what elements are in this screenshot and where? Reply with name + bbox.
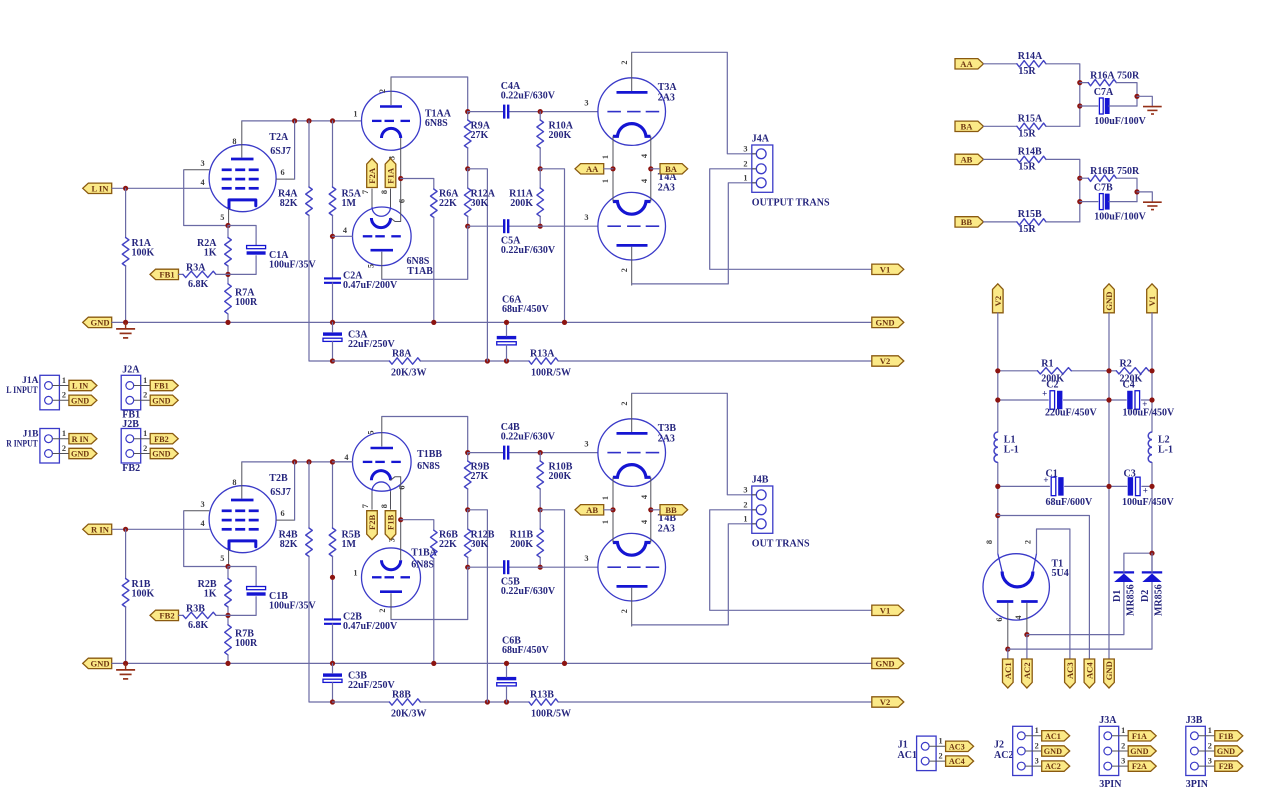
svg-text:V1: V1	[1147, 296, 1157, 307]
connector J1A	[40, 375, 69, 410]
svg-text:1: 1	[601, 179, 610, 183]
junction	[465, 565, 470, 570]
svg-text:3: 3	[1035, 756, 1039, 765]
svg-text:1: 1	[143, 376, 147, 385]
svg-text:1: 1	[1121, 726, 1125, 735]
wire input	[112, 187, 209, 189]
wire aa	[604, 509, 613, 511]
net label FB1 (J2A pin1)	[150, 380, 178, 390]
svg-text:C7B: C7B	[1094, 182, 1113, 193]
svg-text:FB1: FB1	[159, 270, 174, 280]
wire c4 rail b	[509, 111, 598, 113]
svg-text:2: 2	[620, 609, 629, 613]
wire r15 out	[1046, 125, 1080, 127]
resistor R1	[1038, 358, 1072, 384]
svg-text:20K/3W: 20K/3W	[391, 709, 427, 720]
junction	[225, 661, 230, 666]
junction	[465, 224, 470, 229]
wire ac1	[1007, 649, 1009, 659]
wire r12 wires	[467, 510, 469, 529]
net label F1B	[385, 511, 396, 540]
capacitor C6A	[497, 295, 550, 345]
svg-text:8: 8	[232, 137, 236, 146]
junction	[995, 397, 1000, 402]
wire r7 gnd	[227, 655, 229, 663]
svg-text:J1: J1	[898, 739, 908, 750]
net label AC1 (J2 pin1)	[1042, 731, 1070, 741]
wire t3 plate	[632, 393, 757, 495]
svg-text:J4B: J4B	[752, 475, 769, 486]
wire r4 to v2	[309, 216, 333, 362]
wire d1 top	[1124, 553, 1152, 572]
svg-text:15R: 15R	[1018, 128, 1036, 139]
tube T1 5U4	[983, 540, 1069, 649]
wire c2 gnd	[332, 624, 334, 664]
net label L IN	[83, 183, 112, 193]
svg-text:220uF/450V: 220uF/450V	[1045, 408, 1097, 419]
wire fb	[179, 273, 184, 275]
junction	[485, 699, 490, 704]
svg-text:22K: 22K	[439, 198, 457, 209]
pin numbers T3/T4 legs	[601, 154, 649, 183]
junction	[538, 109, 543, 114]
wire c7 right	[1109, 105, 1137, 107]
wire t1bb plate	[382, 417, 468, 453]
svg-text:2: 2	[378, 89, 387, 93]
junction	[123, 186, 128, 191]
wire r16 out	[1116, 83, 1137, 106]
svg-text:J4A: J4A	[752, 134, 770, 145]
tube T1BA 6N8S (lower triode)	[353, 520, 437, 620]
junction	[610, 166, 615, 171]
wire in2	[984, 125, 1017, 127]
resistor R11A	[509, 188, 543, 216]
junction	[504, 358, 509, 363]
junction	[1077, 80, 1082, 85]
net label AA	[955, 59, 984, 69]
resistor R10B	[537, 461, 573, 489]
junction	[504, 661, 509, 666]
capacitor C7B	[1094, 182, 1147, 222]
pin numbers T3/T4 legs	[601, 495, 649, 524]
svg-text:2: 2	[143, 444, 147, 453]
wire r16 in	[1080, 177, 1088, 179]
svg-text:2: 2	[1208, 741, 1212, 750]
svg-text:6N8S: 6N8S	[411, 560, 434, 571]
wire t3 plate	[632, 52, 757, 154]
svg-text:F1A: F1A	[386, 167, 396, 184]
wire c7 left	[1080, 105, 1098, 107]
svg-text:GND: GND	[90, 659, 109, 669]
capacitor C6B	[497, 636, 550, 686]
svg-text:5: 5	[367, 430, 376, 434]
svg-text:3: 3	[584, 213, 588, 222]
svg-text:GND: GND	[1044, 747, 1062, 756]
net label R IN (J1B pin1)	[69, 434, 97, 444]
connector J2A	[121, 375, 150, 410]
svg-text:D1: D1	[1112, 590, 1123, 602]
wire R2 out	[227, 266, 229, 284]
svg-text:AC1: AC1	[898, 750, 917, 761]
svg-text:F2A: F2A	[1132, 762, 1147, 771]
junction	[648, 166, 653, 171]
resistor R4A	[278, 187, 312, 216]
wire c2 row	[998, 399, 1048, 401]
net label GND	[872, 658, 904, 668]
net label BB	[955, 217, 984, 227]
ground	[1143, 107, 1162, 114]
wire g3 to cathode	[184, 170, 228, 226]
wire R2 out	[227, 607, 229, 625]
svg-text:100R: 100R	[235, 297, 258, 308]
svg-text:GND: GND	[1104, 661, 1114, 680]
svg-text:MR856: MR856	[1126, 584, 1137, 616]
wire c5 rail b	[509, 225, 598, 227]
svg-text:1M: 1M	[342, 198, 357, 209]
svg-text:GND: GND	[1130, 747, 1148, 756]
svg-text:C7A: C7A	[1094, 87, 1114, 98]
wire cathode node	[228, 567, 256, 587]
svg-text:4: 4	[1014, 615, 1023, 619]
net label AC3 (J1 pin1)	[946, 741, 974, 751]
svg-text:3: 3	[1121, 756, 1125, 765]
junction	[562, 320, 567, 325]
connector J4A	[743, 134, 830, 209]
wire plate rail	[242, 461, 353, 463]
wire r7 gnd	[227, 314, 229, 322]
svg-text:R15A: R15A	[1018, 113, 1043, 124]
svg-text:1: 1	[143, 429, 147, 438]
resistor R14A	[1017, 51, 1046, 77]
wire c5 rail	[468, 225, 504, 227]
wire node to v2	[468, 169, 488, 361]
svg-text:J1B: J1B	[23, 429, 40, 439]
svg-text:R3B: R3B	[186, 603, 205, 614]
svg-text:100uF/100V: 100uF/100V	[1094, 116, 1146, 127]
svg-text:AC2: AC2	[1045, 762, 1061, 771]
svg-text:6N8S: 6N8S	[417, 461, 440, 472]
wire to R1	[125, 529, 127, 578]
svg-text:1: 1	[743, 173, 747, 182]
net label V2	[872, 697, 904, 707]
svg-text:3: 3	[1208, 756, 1212, 765]
junction	[292, 118, 297, 123]
connector J1 labels	[898, 739, 917, 761]
tube T2A 6SJ7	[184, 121, 295, 226]
svg-text:4: 4	[640, 154, 649, 158]
svg-text:2: 2	[743, 159, 747, 168]
wire t1aa plate	[391, 77, 468, 112]
junction	[330, 459, 335, 464]
svg-text:AC2: AC2	[994, 750, 1013, 761]
svg-text:OUTPUT TRANS: OUTPUT TRANS	[752, 198, 830, 209]
wire input	[112, 528, 209, 530]
junction	[995, 484, 1000, 489]
wire r3 out	[216, 614, 228, 616]
resistor R2	[1116, 358, 1149, 384]
wire v2 rail c	[558, 701, 872, 703]
wire to ac4	[998, 516, 1090, 659]
svg-text:1: 1	[743, 514, 747, 523]
wire r16 out	[1116, 178, 1137, 201]
svg-text:5U4: 5U4	[1052, 568, 1069, 579]
wire v2 rail b	[420, 360, 529, 362]
svg-text:V2: V2	[993, 296, 1003, 307]
svg-text:0.22uF/630V: 0.22uF/630V	[501, 91, 556, 102]
wire t4 plate	[632, 524, 757, 625]
svg-text:22uF/250V: 22uF/250V	[348, 680, 395, 691]
svg-text:4: 4	[640, 179, 649, 183]
capacitor C2A	[324, 271, 398, 292]
svg-text:R INPUT: R INPUT	[6, 439, 38, 449]
svg-text:BA: BA	[665, 164, 678, 174]
svg-text:6: 6	[398, 199, 407, 203]
svg-text:R IN: R IN	[91, 524, 110, 534]
svg-text:GND: GND	[875, 318, 894, 328]
svg-text:20K/3W: 20K/3W	[391, 368, 427, 379]
svg-text:2: 2	[62, 444, 66, 453]
svg-text:5: 5	[367, 264, 376, 268]
junction	[1077, 199, 1082, 204]
svg-text:FB2: FB2	[122, 463, 140, 474]
junction	[306, 459, 311, 464]
svg-text:2: 2	[143, 391, 147, 400]
net label GND	[1104, 284, 1115, 313]
wire c4 rail	[468, 111, 504, 113]
net label GND	[872, 317, 904, 327]
svg-text:6: 6	[281, 509, 285, 518]
resistor R12B	[464, 529, 494, 557]
junction	[1106, 368, 1111, 373]
svg-text:T2B: T2B	[269, 473, 288, 484]
svg-text:R15B: R15B	[1018, 209, 1042, 220]
net label AC1	[1003, 659, 1014, 688]
wire c6 bot	[506, 345, 508, 361]
svg-text:OUT TRANS: OUT TRANS	[752, 539, 810, 550]
wire r10 top stub	[539, 112, 541, 120]
svg-text:L IN: L IN	[72, 382, 88, 391]
wire c6 top	[506, 322, 508, 336]
svg-text:7: 7	[361, 504, 370, 508]
resistor R4B	[279, 528, 313, 557]
svg-text:F2B: F2B	[1219, 762, 1234, 771]
svg-text:3PIN: 3PIN	[1186, 779, 1209, 790]
wire gnd rail	[112, 321, 872, 323]
svg-text:R8A: R8A	[392, 348, 412, 359]
net label AC2	[1022, 659, 1033, 688]
connector J1	[917, 736, 946, 771]
wire r4 top	[308, 462, 310, 528]
junction	[330, 459, 335, 464]
junction	[330, 320, 335, 325]
svg-text:GND: GND	[875, 659, 894, 669]
wire gnd rail	[1108, 313, 1110, 659]
resistor R8A	[389, 348, 426, 378]
ground	[1143, 202, 1162, 209]
svg-text:F1A: F1A	[1132, 732, 1147, 741]
wire r11 bot	[539, 216, 541, 226]
wire r1 row b	[1071, 370, 1116, 372]
svg-text:R8B: R8B	[392, 689, 411, 700]
resistor R15B	[1017, 209, 1046, 235]
wire r5 top	[332, 462, 334, 528]
svg-text:T2A: T2A	[269, 132, 289, 143]
connector J2A labels	[122, 365, 140, 421]
svg-text:V1: V1	[880, 605, 891, 615]
resistor R9A	[464, 120, 490, 148]
resistor R7A	[225, 284, 258, 314]
wire node to v2	[468, 510, 488, 702]
svg-text:J2: J2	[994, 739, 1004, 750]
svg-text:2: 2	[62, 391, 66, 400]
svg-text:R3A: R3A	[186, 262, 206, 273]
svg-text:R IN: R IN	[72, 435, 89, 444]
wire r5 col	[332, 557, 334, 620]
ground	[116, 663, 135, 679]
wire r10 node gnd	[540, 510, 564, 664]
svg-text:5: 5	[220, 213, 224, 222]
svg-text:6N8S: 6N8S	[425, 118, 448, 129]
svg-text:AB: AB	[586, 505, 598, 515]
net label R IN	[83, 524, 112, 534]
junction	[1077, 176, 1082, 181]
svg-text:1K: 1K	[204, 248, 217, 259]
junction	[504, 320, 509, 325]
resistor R2B	[198, 579, 232, 608]
junction	[225, 320, 230, 325]
svg-text:2: 2	[620, 402, 629, 406]
net label GND (J3B pin2)	[1215, 746, 1243, 756]
inductor L2	[1148, 432, 1173, 462]
wire g3 to cathode	[184, 511, 228, 567]
resistor R3A	[183, 262, 216, 290]
wire r16 in	[1080, 82, 1088, 84]
svg-text:T1AB: T1AB	[407, 266, 433, 277]
resistor R1B	[122, 579, 154, 608]
svg-text:AA: AA	[960, 59, 973, 69]
wire R1 to gnd	[125, 266, 127, 322]
svg-text:2: 2	[620, 268, 629, 272]
svg-text:100uF/450V: 100uF/450V	[1123, 408, 1175, 419]
wire pin2 path	[1037, 529, 1070, 659]
junction	[292, 459, 297, 464]
svg-text:GND: GND	[71, 450, 89, 459]
wire r5 col	[332, 216, 334, 279]
junction	[538, 450, 543, 455]
junction	[225, 272, 230, 277]
junction	[330, 699, 335, 704]
svg-text:3: 3	[584, 554, 588, 563]
junction	[431, 320, 436, 325]
net label F2A (J3A pin3)	[1128, 761, 1156, 771]
net label GND (J2A pin2)	[150, 395, 178, 405]
junction	[648, 507, 653, 512]
wire c3 col	[332, 322, 334, 332]
svg-text:AA: AA	[586, 164, 599, 174]
svg-text:0.22uF/630V: 0.22uF/630V	[501, 586, 556, 597]
svg-text:R16B: R16B	[1090, 166, 1114, 177]
connector J2B labels	[122, 419, 140, 474]
svg-text:8: 8	[380, 190, 389, 194]
svg-text:2: 2	[620, 61, 629, 65]
junction	[398, 517, 403, 522]
svg-text:2A3: 2A3	[658, 434, 675, 445]
svg-text:0.47uF/200V: 0.47uF/200V	[343, 621, 398, 632]
wire d2 top	[1151, 553, 1153, 572]
wire to R2	[227, 226, 229, 238]
svg-text:3PIN: 3PIN	[1099, 779, 1122, 790]
wire r10 down	[539, 489, 541, 510]
svg-text:C4: C4	[1123, 380, 1135, 391]
wire ba	[651, 509, 660, 511]
svg-text:2A3: 2A3	[658, 183, 675, 194]
wire to gnd	[1137, 96, 1152, 106]
connector J3B	[1186, 715, 1215, 790]
svg-text:15R: 15R	[1018, 66, 1036, 77]
svg-text:GND: GND	[90, 318, 109, 328]
junction	[330, 234, 335, 239]
wire r12 wires	[467, 169, 469, 188]
resistor R7B	[225, 625, 258, 655]
junction	[465, 166, 470, 171]
diode D1	[1112, 572, 1136, 616]
wire r6 gnd	[433, 559, 435, 664]
svg-text:3: 3	[743, 144, 747, 153]
connector J4B	[743, 475, 810, 550]
wire r11 top stub	[539, 169, 541, 188]
resistor R13A	[529, 348, 571, 378]
wire r4 top	[308, 121, 310, 187]
junction	[995, 513, 1000, 518]
wire cathode to R6	[401, 179, 434, 190]
svg-text:0.22uF/630V: 0.22uF/630V	[501, 245, 556, 256]
svg-text:6.8K: 6.8K	[188, 620, 209, 631]
svg-text:GND: GND	[1217, 747, 1235, 756]
wire v2 rail b	[420, 701, 529, 703]
svg-text:AC2: AC2	[1022, 662, 1032, 679]
svg-text:6SJ7: 6SJ7	[270, 487, 291, 498]
svg-text:AB: AB	[960, 155, 972, 165]
net label GND (J2B pin2)	[150, 448, 178, 458]
svg-text:T3B: T3B	[658, 423, 677, 434]
svg-text:6: 6	[398, 485, 407, 489]
wire r11 top stub	[539, 510, 541, 529]
wire to R2	[227, 567, 229, 579]
wire in1	[984, 63, 1017, 65]
resistor R6A	[431, 189, 460, 218]
svg-text:100R/5W: 100R/5W	[531, 709, 571, 720]
connector J2 labels	[994, 739, 1013, 761]
capacitor C1B	[247, 587, 317, 612]
svg-text:2A3: 2A3	[658, 524, 675, 535]
junction	[538, 166, 543, 171]
wire R1 to gnd	[125, 607, 127, 663]
svg-text:AC1: AC1	[1045, 732, 1061, 741]
svg-text:6.8K: 6.8K	[188, 279, 209, 290]
net label L IN (J1A pin1)	[69, 380, 97, 390]
svg-text:200K: 200K	[510, 198, 533, 209]
connector J2B	[121, 429, 150, 464]
wire aa	[604, 168, 613, 170]
label R16A value	[1117, 71, 1140, 82]
svg-text:2: 2	[1035, 741, 1039, 750]
ground	[116, 322, 135, 338]
connector J2	[1013, 726, 1042, 775]
wire to gnd	[1137, 192, 1152, 202]
svg-text:GND: GND	[152, 450, 170, 459]
svg-text:1: 1	[62, 429, 66, 438]
net label BA	[955, 121, 984, 131]
